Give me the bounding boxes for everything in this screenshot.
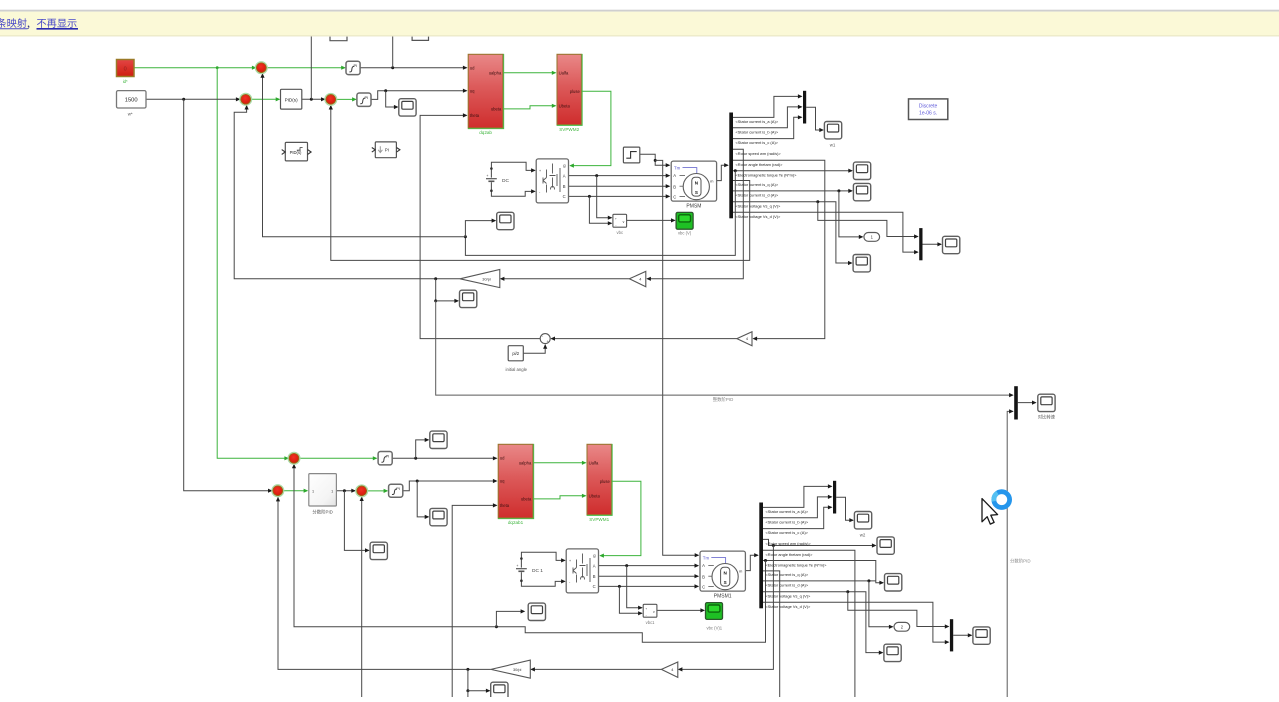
svg-text:vbc (V): vbc (V) [678, 230, 692, 235]
svg-text:w2: w2 [860, 533, 866, 538]
svg-text:Ubeta: Ubeta [559, 103, 571, 108]
svg-text:-: - [615, 223, 616, 227]
svg-text:v: v [653, 610, 655, 614]
svg-text:A: A [563, 173, 566, 178]
svg-text:分数阶PID: 分数阶PID [312, 509, 333, 516]
svg-text:B: B [593, 574, 596, 579]
svg-text:initial angle: initial angle [506, 367, 528, 372]
svg-text:uq: uq [500, 479, 505, 484]
svg-text:ud: ud [470, 65, 475, 70]
svg-text:vbc (V)1: vbc (V)1 [707, 626, 723, 631]
svg-text:Tm: Tm [703, 555, 710, 560]
svg-text:C: C [702, 584, 705, 589]
svg-text:A: A [702, 563, 705, 568]
svg-text:ualpha: ualpha [519, 460, 532, 465]
svg-text:<Rotor angle thetam (rad)>: <Rotor angle thetam (rad)> [736, 162, 784, 167]
svg-text:<Stator current is_b (A)>: <Stator current is_b (A)> [766, 519, 809, 524]
svg-text:<Stator current is_c (A)>: <Stator current is_c (A)> [766, 530, 809, 535]
svg-text:对比转速: 对比转速 [1038, 414, 1056, 421]
svg-text:<Stator current is_d (A)>: <Stator current is_d (A)> [766, 583, 809, 588]
svg-text:DC 1: DC 1 [532, 568, 543, 574]
svg-text:id*: id* [123, 79, 128, 84]
svg-text:<Rotor angle thetam (rad)>: <Rotor angle thetam (rad)> [766, 552, 814, 557]
svg-text:<Stator current is_d (A)>: <Stator current is_d (A)> [736, 193, 779, 198]
svg-text:<Stator current is_a (A)>: <Stator current is_a (A)> [766, 509, 809, 514]
svg-text:B: B [673, 184, 676, 189]
svg-text:+: + [615, 217, 617, 221]
svg-text:-: - [646, 613, 647, 617]
svg-text:C: C [563, 194, 566, 199]
svg-text:<Stator voltage Vs_d (V)>: <Stator voltage Vs_d (V)> [766, 604, 811, 609]
svg-text:30/pi: 30/pi [513, 667, 522, 672]
svg-text:<Stator voltage Vs_q (V)>: <Stator voltage Vs_q (V)> [736, 203, 781, 208]
svg-text:Ubeta: Ubeta [589, 493, 601, 498]
svg-text:uq: uq [470, 88, 475, 93]
svg-text:PI: PI [354, 63, 358, 68]
svg-text:ubeta: ubeta [521, 497, 532, 502]
svg-text:<Stator current is_q (A)>: <Stator current is_q (A)> [766, 572, 809, 577]
svg-text:vbc: vbc [617, 230, 624, 235]
svg-text:1: 1 [331, 490, 333, 494]
svg-text:DC: DC [502, 178, 509, 184]
svg-text:pi/2: pi/2 [512, 351, 519, 356]
svg-text:<Rotor speed wm (rad/s)>: <Rotor speed wm (rad/s)> [766, 541, 812, 546]
svg-text:ubeta: ubeta [491, 107, 502, 112]
svg-text:<Stator voltage Vs_q (V)>: <Stator voltage Vs_q (V)> [766, 593, 811, 598]
svg-text:theta: theta [470, 113, 480, 118]
svg-text:+: + [569, 559, 571, 563]
svg-text:theta: theta [500, 503, 510, 508]
svg-text:S: S [724, 580, 727, 585]
svg-text:整数阶PID: 整数阶PID [713, 396, 734, 403]
svg-text:1e-06 s.: 1e-06 s. [919, 111, 937, 117]
svg-text:Ualfa: Ualfa [589, 460, 599, 465]
svg-text:1: 1 [312, 490, 314, 494]
svg-text:A: A [673, 173, 676, 178]
svg-text:PMSM1: PMSM1 [714, 594, 732, 600]
svg-text:dq2ab: dq2ab [479, 130, 492, 135]
svg-text:条映射: 条映射 [0, 17, 27, 30]
svg-text:<Stator voltage Vs_d (V)>: <Stator voltage Vs_d (V)> [736, 214, 781, 219]
svg-text:B: B [702, 574, 705, 579]
svg-text:A: A [593, 563, 596, 568]
svg-text:1500: 1500 [125, 98, 138, 104]
svg-text:<Electromagnetic torque Te (N*: <Electromagnetic torque Te (N*m)> [766, 562, 828, 567]
svg-text:w1: w1 [830, 143, 836, 148]
svg-text:vbc1: vbc1 [646, 620, 656, 625]
svg-text:分数阶PID: 分数阶PID [1010, 558, 1031, 565]
svg-text:ud: ud [500, 455, 505, 460]
svg-text:<Stator current is_q (A)>: <Stator current is_q (A)> [736, 182, 779, 187]
svg-text:+: + [645, 607, 647, 611]
svg-text:PID(s): PID(s) [285, 97, 298, 102]
svg-text:<Stator current is_c (A)>: <Stator current is_c (A)> [736, 140, 779, 145]
svg-text:S: S [695, 190, 698, 195]
svg-text:dq2ab1: dq2ab1 [508, 520, 524, 525]
svg-text:B: B [563, 184, 566, 189]
svg-text:30/pi: 30/pi [482, 276, 491, 281]
svg-text:C: C [673, 194, 676, 199]
svg-text:PI: PI [364, 95, 368, 100]
svg-text:+: + [486, 174, 488, 178]
svg-text:SVPWM1: SVPWM1 [589, 517, 609, 522]
svg-text:<Electromagnetic torque Te (N*: <Electromagnetic torque Te (N*m)> [736, 172, 798, 177]
svg-text:<Stator current is_b (A)>: <Stator current is_b (A)> [736, 129, 779, 134]
svg-text:Tm: Tm [674, 165, 681, 170]
svg-text:Ualfa: Ualfa [559, 70, 569, 75]
svg-text:+: + [546, 340, 548, 344]
svg-text:Discrete: Discrete [919, 103, 938, 109]
svg-text:ualpha: ualpha [489, 70, 502, 75]
svg-text:PI: PI [386, 454, 390, 459]
svg-text:SVPWM2: SVPWM2 [559, 127, 579, 132]
svg-text:C: C [593, 584, 596, 589]
svg-text:+: + [539, 169, 541, 173]
svg-text:PMSM: PMSM [686, 204, 701, 210]
svg-text:PI: PI [385, 147, 389, 152]
svg-text:v: v [623, 220, 625, 224]
svg-text:，: ， [26, 20, 36, 31]
svg-text:pluse: pluse [570, 89, 581, 94]
svg-text:w*: w* [128, 112, 133, 117]
svg-text:<Stator current is_a (A)>: <Stator current is_a (A)> [736, 119, 779, 124]
svg-text:0: 0 [124, 67, 127, 73]
svg-text:<Rotor speed wm (rad/s)>: <Rotor speed wm (rad/s)> [736, 151, 782, 156]
svg-text:pluse: pluse [600, 479, 611, 484]
svg-text:+: + [516, 564, 518, 568]
